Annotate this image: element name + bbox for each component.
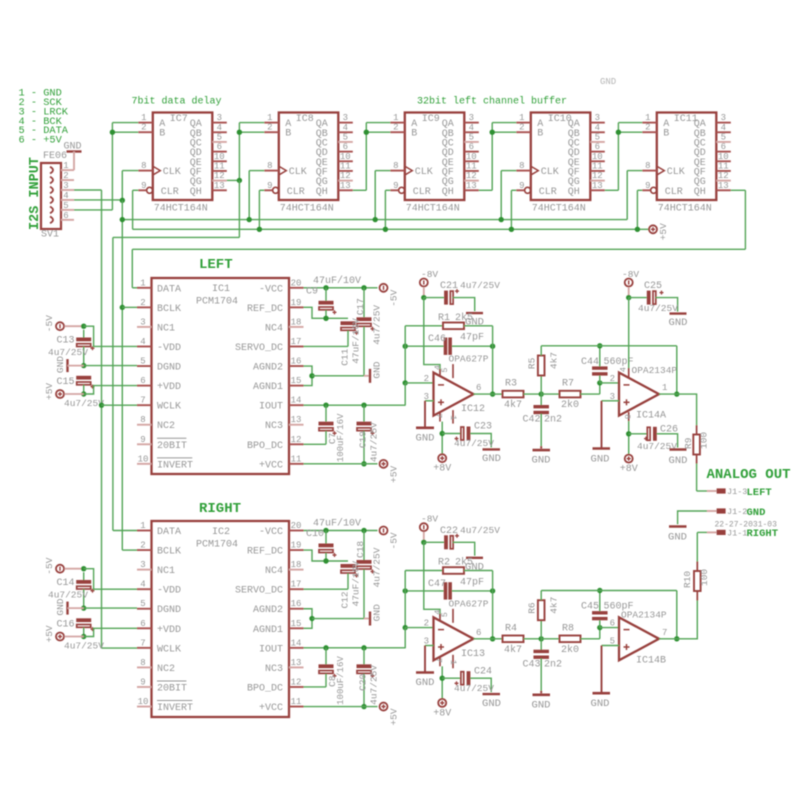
- svg-text:+8V: +8V: [433, 464, 451, 475]
- svg-text:GND: GND: [532, 699, 551, 711]
- svg-text:INVERT: INVERT: [157, 460, 193, 471]
- svg-text:3: 3: [63, 181, 68, 191]
- svg-text:9: 9: [519, 181, 524, 191]
- svg-text:18: 18: [291, 560, 302, 570]
- svg-text:8: 8: [622, 414, 632, 419]
- svg-text:8: 8: [519, 161, 524, 171]
- svg-text:11: 11: [592, 161, 603, 171]
- svg-text:J1-1: J1-1: [727, 528, 747, 538]
- svg-text:C9: C9: [306, 286, 318, 297]
- svg-text:4: 4: [721, 123, 726, 133]
- svg-text:+VCC: +VCC: [259, 703, 283, 714]
- svg-text:B: B: [411, 129, 417, 140]
- svg-text:1: 1: [645, 113, 650, 123]
- svg-text:13: 13: [718, 181, 729, 191]
- svg-text:B: B: [663, 129, 669, 140]
- svg-text:4: 4: [469, 123, 474, 133]
- svg-text:8: 8: [141, 161, 146, 171]
- svg-text:IC12: IC12: [461, 404, 485, 415]
- svg-text:CLR: CLR: [161, 187, 179, 198]
- svg-text:6: 6: [610, 619, 615, 629]
- svg-text:+VDD: +VDD: [157, 625, 181, 636]
- svg-text:4k7: 4k7: [504, 644, 522, 656]
- svg-text:9: 9: [267, 181, 272, 191]
- svg-text:B: B: [285, 129, 291, 140]
- svg-text:DGND: DGND: [157, 605, 181, 616]
- svg-text:1: 1: [140, 278, 145, 288]
- svg-text:6: 6: [140, 376, 145, 386]
- svg-text:C18: C18: [355, 541, 366, 558]
- svg-text:2k0: 2k0: [561, 644, 579, 656]
- svg-text:R6: R6: [527, 602, 538, 614]
- svg-text:IOUT: IOUT: [259, 644, 283, 655]
- svg-text:5: 5: [440, 612, 450, 617]
- svg-text:9: 9: [393, 181, 398, 191]
- svg-text:32bit left channel buffer: 32bit left channel buffer: [417, 96, 567, 108]
- svg-text:16: 16: [291, 599, 302, 609]
- svg-text:4u7/25V: 4u7/25V: [369, 422, 380, 462]
- svg-text:QH: QH: [316, 187, 328, 198]
- svg-text:13: 13: [214, 181, 225, 191]
- svg-text:17: 17: [291, 580, 302, 590]
- svg-text:IC13: IC13: [461, 649, 485, 660]
- svg-text:4: 4: [217, 123, 222, 133]
- svg-text:GND: GND: [591, 454, 610, 466]
- svg-text:C47: C47: [428, 579, 446, 590]
- svg-text:-VCC: -VCC: [259, 527, 283, 538]
- svg-text:QH: QH: [694, 187, 706, 198]
- svg-text:NC4: NC4: [265, 323, 283, 334]
- svg-text:R2: R2: [438, 558, 450, 569]
- svg-text:GND: GND: [482, 698, 501, 710]
- svg-text:4u7/25V: 4u7/25V: [64, 398, 104, 409]
- svg-text:C12: C12: [340, 591, 351, 608]
- svg-text:2k5: 2k5: [455, 557, 473, 569]
- svg-text:5: 5: [595, 132, 600, 142]
- svg-text:8: 8: [267, 161, 272, 171]
- svg-text:SERVO_DC: SERVO_DC: [235, 343, 283, 354]
- svg-text:SERVO_DC: SERVO_DC: [235, 586, 283, 597]
- svg-text:DATA: DATA: [157, 284, 181, 295]
- svg-text:R8: R8: [562, 623, 574, 634]
- svg-text:8: 8: [140, 415, 145, 425]
- svg-text:REF_DC: REF_DC: [247, 547, 283, 558]
- svg-text:GND: GND: [668, 532, 687, 544]
- svg-text:C23: C23: [474, 422, 492, 433]
- svg-text:+8V: +8V: [433, 708, 451, 719]
- svg-text:2: 2: [141, 123, 146, 133]
- svg-text:11: 11: [718, 161, 729, 171]
- svg-text:6: 6: [721, 142, 726, 152]
- svg-text:7: 7: [140, 396, 145, 406]
- svg-text:47uF/10V: 47uF/10V: [351, 318, 362, 364]
- svg-text:C16: C16: [56, 620, 74, 631]
- svg-text:QH: QH: [568, 187, 580, 198]
- svg-text:QH: QH: [442, 187, 454, 198]
- svg-text:OPA627P: OPA627P: [449, 598, 489, 609]
- svg-text:100: 100: [699, 432, 710, 449]
- svg-text:R4: R4: [505, 623, 517, 634]
- svg-text:NC4: NC4: [265, 566, 283, 577]
- svg-text:1: 1: [448, 660, 458, 665]
- svg-text:4: 4: [140, 580, 145, 590]
- svg-text:GND: GND: [482, 453, 501, 465]
- svg-text:4u7/25V: 4u7/25V: [638, 303, 678, 314]
- svg-text:+8V: +8V: [620, 464, 638, 475]
- svg-text:10: 10: [214, 152, 225, 162]
- svg-text:2n2: 2n2: [544, 659, 562, 670]
- svg-text:19: 19: [291, 298, 302, 308]
- svg-text:7: 7: [433, 413, 443, 418]
- svg-text:2: 2: [519, 123, 524, 133]
- svg-text:1: 1: [140, 521, 145, 531]
- svg-text:C13: C13: [56, 336, 74, 347]
- svg-text:C45: C45: [581, 602, 599, 613]
- svg-text:13: 13: [466, 181, 477, 191]
- svg-text:4u7/25V: 4u7/25V: [372, 305, 383, 345]
- svg-text:NC3: NC3: [265, 664, 283, 675]
- svg-text:R7: R7: [562, 379, 574, 390]
- svg-text:OPA627P: OPA627P: [449, 354, 489, 365]
- svg-text:16: 16: [291, 357, 302, 367]
- svg-text:INVERT: INVERT: [157, 703, 193, 714]
- svg-text:4: 4: [595, 123, 600, 133]
- svg-text:PCM1704: PCM1704: [196, 540, 238, 551]
- svg-text:10: 10: [466, 152, 477, 162]
- svg-text:CLR: CLR: [539, 187, 557, 198]
- svg-text:C43: C43: [522, 659, 540, 670]
- svg-text:20BIT: 20BIT: [157, 441, 187, 452]
- svg-text:6: 6: [217, 142, 222, 152]
- svg-text:6: 6: [476, 628, 481, 638]
- svg-text:GND: GND: [55, 356, 66, 373]
- svg-text:8: 8: [393, 161, 398, 171]
- svg-text:4u7/25V: 4u7/25V: [460, 525, 500, 536]
- svg-text:8: 8: [645, 161, 650, 171]
- svg-text:47uF/10V: 47uF/10V: [351, 561, 362, 607]
- svg-text:1: 1: [267, 113, 272, 123]
- svg-text:C15: C15: [56, 377, 74, 388]
- svg-text:14: 14: [291, 396, 302, 406]
- svg-text:C22: C22: [440, 526, 458, 537]
- svg-text:CLK: CLK: [289, 167, 307, 178]
- svg-text:AGND1: AGND1: [253, 625, 283, 636]
- svg-text:4: 4: [140, 337, 145, 347]
- svg-text:IC8: IC8: [296, 114, 314, 125]
- svg-text:17: 17: [291, 337, 302, 347]
- svg-text:5: 5: [140, 599, 145, 609]
- svg-text:GND: GND: [747, 507, 766, 519]
- svg-text:5: 5: [140, 357, 145, 367]
- svg-text:1: 1: [519, 113, 524, 123]
- svg-text:11: 11: [466, 161, 477, 171]
- svg-text:47uF/10V: 47uF/10V: [313, 518, 361, 530]
- svg-text:C11: C11: [340, 348, 351, 365]
- svg-text:AGND2: AGND2: [253, 605, 283, 616]
- svg-text:R3: R3: [505, 379, 517, 390]
- svg-text:+5V: +5V: [44, 383, 55, 400]
- svg-text:CLK: CLK: [667, 167, 685, 178]
- svg-text:GND: GND: [55, 598, 66, 615]
- svg-text:-VCC: -VCC: [259, 284, 283, 295]
- svg-text:9: 9: [645, 181, 650, 191]
- svg-text:C21: C21: [440, 281, 458, 292]
- svg-text:3: 3: [343, 113, 348, 123]
- svg-text:C10: C10: [306, 529, 324, 540]
- svg-text:PCM1704: PCM1704: [196, 297, 238, 308]
- svg-text:BCLK: BCLK: [157, 547, 181, 558]
- svg-text:RIGHT: RIGHT: [199, 501, 241, 517]
- svg-text:4u7/25V: 4u7/25V: [372, 547, 383, 587]
- svg-text:RIGHT: RIGHT: [747, 528, 779, 540]
- svg-text:-5V: -5V: [389, 289, 400, 306]
- svg-text:2: 2: [140, 298, 145, 308]
- svg-text:5: 5: [469, 132, 474, 142]
- svg-text:20: 20: [291, 521, 302, 531]
- svg-text:QH: QH: [190, 187, 202, 198]
- svg-text:10: 10: [592, 152, 603, 162]
- svg-text:R9: R9: [683, 437, 694, 449]
- svg-text:IC7: IC7: [170, 114, 188, 125]
- svg-text:OPA2134P: OPA2134P: [621, 610, 667, 621]
- svg-text:CLK: CLK: [541, 167, 559, 178]
- svg-text:12: 12: [291, 677, 302, 687]
- svg-text:12: 12: [718, 171, 729, 181]
- svg-text:4u7/25V: 4u7/25V: [454, 438, 494, 449]
- svg-text:7: 7: [433, 658, 443, 663]
- svg-text:AGND2: AGND2: [253, 363, 283, 374]
- svg-text:12: 12: [466, 171, 477, 181]
- svg-text:BCLK: BCLK: [157, 304, 181, 315]
- svg-text:13: 13: [291, 415, 302, 425]
- svg-text:4k7: 4k7: [504, 399, 522, 411]
- svg-text:3: 3: [217, 113, 222, 123]
- svg-text:R10: R10: [682, 571, 693, 588]
- svg-text:10: 10: [138, 454, 149, 464]
- svg-text:4u7/25V: 4u7/25V: [454, 683, 494, 694]
- svg-text:-5V: -5V: [389, 532, 400, 549]
- svg-text:LEFT: LEFT: [199, 257, 233, 273]
- svg-text:2n2: 2n2: [544, 415, 562, 426]
- svg-text:4u7/25V: 4u7/25V: [460, 280, 500, 291]
- svg-text:IC14B: IC14B: [636, 655, 666, 666]
- svg-text:1: 1: [141, 113, 146, 123]
- svg-text:2k5: 2k5: [455, 312, 473, 324]
- svg-text:2: 2: [140, 541, 145, 551]
- svg-text:47pF: 47pF: [460, 333, 484, 344]
- svg-text:2k0: 2k0: [561, 399, 579, 411]
- svg-text:3: 3: [595, 113, 600, 123]
- svg-text:GND: GND: [669, 455, 688, 467]
- svg-text:GND: GND: [591, 698, 610, 710]
- svg-text:19: 19: [291, 541, 302, 551]
- svg-text:-VDD: -VDD: [157, 343, 181, 354]
- svg-text:NC2: NC2: [157, 421, 175, 432]
- svg-text:11: 11: [214, 161, 225, 171]
- svg-text:6: 6: [476, 383, 481, 393]
- svg-text:WCLK: WCLK: [157, 644, 181, 655]
- svg-text:100uF/16V: 100uF/16V: [336, 413, 346, 462]
- svg-text:11: 11: [291, 454, 302, 464]
- svg-text:1: 1: [448, 415, 458, 420]
- svg-text:WCLK: WCLK: [157, 402, 181, 413]
- svg-text:C19: C19: [358, 431, 369, 448]
- svg-text:2: 2: [645, 123, 650, 133]
- svg-text:12: 12: [291, 435, 302, 445]
- svg-text:REF_DC: REF_DC: [247, 304, 283, 315]
- svg-text:20BIT: 20BIT: [157, 683, 187, 694]
- svg-text:4: 4: [343, 123, 348, 133]
- svg-text:GND: GND: [600, 77, 616, 87]
- svg-text:74HCT164N: 74HCT164N: [406, 204, 460, 215]
- svg-text:13: 13: [592, 181, 603, 191]
- svg-text:2: 2: [63, 171, 68, 181]
- svg-text:GND: GND: [532, 455, 551, 467]
- svg-text:4u7/25V: 4u7/25V: [48, 590, 88, 601]
- svg-text:3: 3: [140, 560, 145, 570]
- svg-text:20: 20: [291, 278, 302, 288]
- svg-text:13: 13: [291, 658, 302, 668]
- svg-text:+5V: +5V: [44, 625, 55, 642]
- svg-text:DATA: DATA: [157, 527, 181, 538]
- svg-text:4k7: 4k7: [549, 352, 560, 369]
- svg-text:74HCT164N: 74HCT164N: [154, 204, 208, 215]
- svg-text:14: 14: [291, 638, 302, 648]
- svg-text:-5V: -5V: [44, 315, 55, 332]
- svg-text:74HCT164N: 74HCT164N: [532, 204, 586, 215]
- svg-text:-VDD: -VDD: [157, 586, 181, 597]
- svg-text:1: 1: [63, 161, 68, 171]
- svg-text:10: 10: [340, 152, 351, 162]
- svg-text:3: 3: [469, 113, 474, 123]
- svg-text:6: 6: [469, 142, 474, 152]
- svg-text:2: 2: [267, 123, 272, 133]
- svg-text:6 - +5V: 6 - +5V: [19, 135, 63, 147]
- svg-text:12: 12: [214, 171, 225, 181]
- svg-text:74HCT164N: 74HCT164N: [658, 204, 712, 215]
- svg-text:CLK: CLK: [415, 167, 433, 178]
- svg-text:47pF: 47pF: [460, 577, 484, 588]
- svg-text:15: 15: [291, 376, 302, 386]
- svg-text:11: 11: [340, 161, 351, 171]
- svg-text:J1-2: J1-2: [727, 507, 747, 517]
- svg-text:10: 10: [718, 152, 729, 162]
- svg-text:LEFT: LEFT: [747, 487, 772, 499]
- svg-text:C20: C20: [358, 673, 369, 690]
- svg-text:+VCC: +VCC: [259, 460, 283, 471]
- svg-text:4k7: 4k7: [549, 597, 560, 614]
- svg-text:6: 6: [595, 142, 600, 152]
- svg-text:C44: C44: [581, 357, 599, 368]
- svg-text:BPO_DC: BPO_DC: [247, 683, 283, 694]
- svg-text:12: 12: [340, 171, 351, 181]
- svg-text:18: 18: [291, 317, 302, 327]
- svg-text:+5V: +5V: [658, 223, 669, 240]
- svg-text:4u7/25V: 4u7/25V: [369, 665, 380, 705]
- svg-text:5: 5: [721, 132, 726, 142]
- svg-text:R5: R5: [527, 357, 538, 369]
- svg-text:1: 1: [393, 113, 398, 123]
- svg-text:5: 5: [440, 367, 450, 372]
- svg-text:2: 2: [610, 374, 615, 384]
- svg-text:74HCT164N: 74HCT164N: [280, 204, 334, 215]
- svg-text:GND: GND: [669, 317, 688, 329]
- svg-text:3: 3: [140, 317, 145, 327]
- svg-text:100uF/16V: 100uF/16V: [336, 656, 346, 705]
- svg-text:OPA2134P: OPA2134P: [632, 365, 678, 376]
- svg-text:10: 10: [138, 697, 149, 707]
- svg-text:GND: GND: [372, 361, 383, 378]
- svg-text:11: 11: [291, 697, 302, 707]
- svg-text:AGND1: AGND1: [253, 382, 283, 393]
- svg-text:7: 7: [662, 628, 667, 638]
- svg-text:CLR: CLR: [413, 187, 431, 198]
- svg-text:C14: C14: [56, 578, 74, 589]
- svg-text:5: 5: [63, 201, 68, 211]
- svg-text:4u7/25V: 4u7/25V: [64, 641, 104, 652]
- svg-text:C17: C17: [355, 298, 366, 315]
- svg-text:NC3: NC3: [265, 421, 283, 432]
- svg-text:GND: GND: [416, 677, 435, 689]
- svg-text:NC1: NC1: [157, 566, 175, 577]
- svg-text:+5V: +5V: [389, 465, 400, 482]
- svg-text:NC2: NC2: [157, 664, 175, 675]
- svg-text:+5V: +5V: [389, 708, 400, 725]
- svg-text:22-27-2031-03: 22-27-2031-03: [715, 521, 778, 530]
- svg-text:47uF/10V: 47uF/10V: [313, 275, 361, 287]
- svg-text:BPO_DC: BPO_DC: [247, 441, 283, 452]
- svg-text:C24: C24: [474, 666, 492, 677]
- svg-text:7: 7: [140, 638, 145, 648]
- svg-text:9: 9: [141, 181, 146, 191]
- svg-text:IC1: IC1: [212, 284, 230, 295]
- svg-text:13: 13: [340, 181, 351, 191]
- svg-text:+VDD: +VDD: [157, 382, 181, 393]
- svg-text:6: 6: [63, 211, 68, 221]
- svg-text:5: 5: [217, 132, 222, 142]
- svg-text:15: 15: [291, 619, 302, 629]
- svg-text:2: 2: [424, 374, 429, 384]
- svg-text:CLR: CLR: [665, 187, 683, 198]
- svg-text:5: 5: [343, 132, 348, 142]
- svg-text:CLR: CLR: [287, 187, 305, 198]
- svg-text:7bit data delay: 7bit data delay: [132, 96, 222, 108]
- svg-text:C25: C25: [644, 281, 662, 292]
- svg-text:IC9: IC9: [422, 114, 440, 125]
- svg-text:6: 6: [140, 619, 145, 629]
- svg-text:C46: C46: [428, 334, 446, 345]
- svg-text:R1: R1: [438, 313, 450, 324]
- svg-text:GND: GND: [372, 604, 383, 621]
- svg-text:J1-3: J1-3: [727, 487, 747, 497]
- svg-text:4: 4: [619, 367, 629, 372]
- svg-text:9: 9: [140, 677, 145, 687]
- svg-text:NC1: NC1: [157, 323, 175, 334]
- svg-text:B: B: [537, 129, 543, 140]
- svg-text:9: 9: [140, 435, 145, 445]
- svg-text:DGND: DGND: [157, 363, 181, 374]
- svg-text:GND: GND: [416, 432, 435, 444]
- svg-text:ANALOG OUT: ANALOG OUT: [707, 467, 791, 483]
- svg-text:IC14A: IC14A: [636, 411, 666, 422]
- svg-text:4: 4: [63, 191, 68, 201]
- svg-text:12: 12: [592, 171, 603, 181]
- svg-text:6: 6: [343, 142, 348, 152]
- svg-text:2: 2: [393, 123, 398, 133]
- svg-text:1: 1: [662, 383, 667, 393]
- svg-text:B: B: [159, 129, 165, 140]
- svg-text:IC2: IC2: [212, 527, 230, 538]
